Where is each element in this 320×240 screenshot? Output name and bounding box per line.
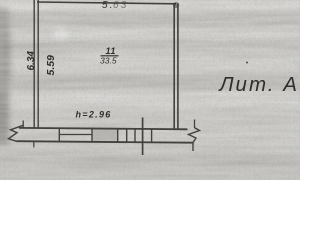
pier fill between windows xyxy=(93,129,117,141)
svg-text:63: 63 xyxy=(113,0,129,11)
bottom wall bottom line xyxy=(17,141,193,143)
drawing layer xyxy=(0,0,300,180)
svg-text:33.5: 33.5 xyxy=(100,56,117,66)
bottom wall top line xyxy=(19,128,188,129)
svg-text:6.34: 6.34 xyxy=(26,51,37,71)
opening divider b xyxy=(126,129,128,142)
window W1 right divider xyxy=(91,128,93,141)
left scan-edge shadow xyxy=(0,8,9,146)
left wall (double line) xyxy=(33,0,35,128)
window W1 left divider xyxy=(58,128,60,141)
right wall (double line) xyxy=(173,3,175,129)
stray speck xyxy=(246,62,248,64)
opening divider d xyxy=(151,129,153,142)
svg-text:11: 11 xyxy=(106,46,117,56)
right wall top corner ink blob xyxy=(173,2,179,8)
top wall line xyxy=(37,2,176,4)
boundary line crossing wall xyxy=(142,118,144,156)
scan streak bands xyxy=(0,0,300,11)
svg-text:Лит. А: Лит. А xyxy=(218,73,299,96)
pale spot in room xyxy=(53,28,69,40)
tick below wall at left wall axis xyxy=(33,142,35,148)
svg-text:h=2.96: h=2.96 xyxy=(76,110,112,120)
left break mark xyxy=(22,121,24,128)
grain noise overlay xyxy=(0,0,300,180)
opening divider a xyxy=(117,129,119,142)
window W1 middle line xyxy=(59,134,92,136)
room label underline xyxy=(101,55,119,57)
opening divider c xyxy=(134,129,136,142)
svg-text:5.59: 5.59 xyxy=(45,55,57,76)
right break mark xyxy=(194,120,196,128)
